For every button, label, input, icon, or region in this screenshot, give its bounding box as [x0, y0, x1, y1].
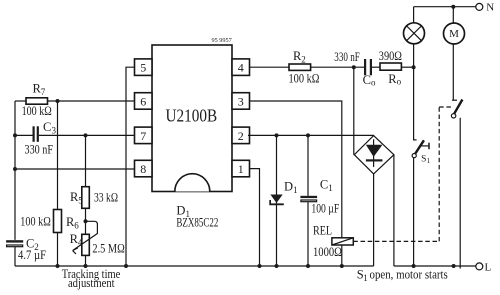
wire pin4 to R2: [250, 66, 290, 68]
terminal L: [476, 261, 492, 273]
svg-text:100 kΩ: 100 kΩ: [20, 215, 51, 229]
node left rail pin8: [13, 167, 17, 171]
wire pin3 to relay: [250, 101, 342, 238]
wire relay contact to bottom rail: [459, 118, 461, 269]
resistor R5: [70, 187, 118, 209]
svg-text:330 nF: 330 nF: [334, 50, 360, 64]
zener diode D1: [269, 179, 297, 205]
wire top N rail: [414, 6, 476, 8]
wire Ro to lamp node: [401, 66, 413, 68]
svg-text:C: C: [43, 120, 51, 134]
node rail S1: [412, 264, 416, 268]
capacitor Co: [334, 50, 376, 88]
node Co junction: [352, 65, 356, 69]
pin 5: [135, 59, 153, 76]
wire bottom rail right to L: [394, 265, 476, 267]
wire pin2 rail to bridge top: [248, 134, 374, 136]
svg-text:4.7 µF: 4.7 µF: [18, 248, 46, 262]
node rail R4: [84, 264, 88, 268]
capacitor C3: [25, 120, 57, 157]
svg-text:adjustment: adjustment: [68, 276, 115, 290]
node rail pin1 line: [258, 264, 262, 268]
wire S1 to bottom rail: [413, 158, 415, 266]
node left rail / C3: [13, 133, 17, 137]
svg-text:BZX85C22: BZX85C22: [176, 216, 218, 230]
pin 8: [135, 160, 153, 177]
svg-text:1: 1: [363, 273, 368, 283]
svg-text:8: 8: [140, 162, 146, 176]
node rail R6: [56, 264, 60, 268]
wire REL bottom: [341, 245, 343, 266]
resistor R6: [20, 210, 79, 233]
node rail D1: [275, 264, 279, 268]
wire left rail vertical: [14, 101, 16, 266]
resistor R7: [22, 82, 52, 118]
pin 4: [232, 59, 250, 76]
wire lamp bottom to Ro node: [413, 44, 415, 67]
svg-text:3: 3: [238, 95, 244, 109]
svg-text:D: D: [284, 179, 293, 193]
svg-text:95 9957: 95 9957: [212, 38, 232, 44]
svg-text:REL: REL: [313, 223, 332, 237]
node lamp/S1 junction: [412, 65, 416, 69]
wire R2 to Co: [311, 66, 364, 68]
node rail C1: [306, 264, 310, 268]
svg-text:S: S: [421, 154, 426, 164]
wire C1 top: [307, 135, 309, 195]
wire R7 left link: [15, 100, 26, 102]
svg-text:1: 1: [427, 157, 431, 165]
resistor R2: [289, 49, 320, 86]
wire R6 bottom: [57, 233, 59, 266]
wire Co to Ro: [372, 66, 380, 68]
wire C3 to pin7: [39, 134, 135, 136]
potentiometer R4: [70, 221, 125, 255]
wire R4 bottom: [85, 255, 87, 266]
relay coil REL: [313, 223, 353, 258]
pin 1: [232, 160, 250, 177]
wire pin8 rail: [15, 168, 135, 170]
switch S1: [412, 140, 431, 165]
node R7/R6 junction: [56, 99, 60, 103]
pin 2: [232, 127, 250, 144]
svg-text:390Ω: 390Ω: [379, 49, 402, 63]
svg-text:100 kΩ: 100 kΩ: [289, 72, 320, 86]
node C1 top: [306, 133, 310, 137]
wire C3 left: [15, 134, 33, 136]
svg-text:1: 1: [293, 185, 298, 195]
svg-text:1000Ω: 1000Ω: [313, 245, 342, 259]
IC type label D1 BZX85C22: [176, 204, 218, 230]
pin 6: [135, 93, 153, 110]
svg-text:1: 1: [328, 183, 333, 193]
node junction on N rail: [451, 5, 455, 9]
svg-text:33 kΩ: 33 kΩ: [94, 190, 118, 204]
svg-text:7: 7: [41, 87, 46, 97]
wire R7 to pin6: [48, 100, 135, 102]
svg-text:2: 2: [301, 55, 306, 65]
node rail pin5 line: [124, 264, 128, 268]
svg-text:4: 4: [238, 61, 244, 75]
svg-text:U2100B: U2100B: [165, 105, 217, 125]
wire motor top stub: [452, 7, 454, 23]
node rail REL: [340, 264, 344, 268]
wire bottom rail left: [15, 265, 374, 267]
relay contact (motor switch): [451, 100, 462, 119]
svg-text:open, motor starts: open, motor starts: [370, 268, 448, 282]
svg-text:5: 5: [140, 61, 146, 75]
wire R6 top: [57, 101, 59, 209]
node R5/R4 wiper junction: [84, 219, 88, 223]
wire Co node down to bridge left corner: [353, 67, 355, 155]
svg-text:330 nF: 330 nF: [25, 143, 54, 157]
svg-text:2: 2: [238, 129, 244, 143]
wire bridge bottom corner down: [373, 174, 375, 266]
wire motor bottom to relay contact: [452, 44, 454, 100]
svg-text:1: 1: [238, 162, 244, 176]
wire pin1 down: [250, 169, 260, 266]
capacitor C2: [6, 236, 46, 261]
wire node to S1: [413, 67, 415, 140]
wire R5 to R4: [85, 208, 87, 234]
wire bridge right corner down: [393, 155, 395, 266]
wire lamp top stub: [413, 7, 415, 23]
svg-text:N: N: [486, 2, 494, 14]
svg-text:4: 4: [78, 237, 83, 247]
node D1 top: [275, 133, 279, 137]
node C3/R5 junction: [84, 133, 88, 137]
svg-text:5: 5: [78, 195, 83, 205]
terminal N: [476, 2, 495, 14]
svg-text:100 µF: 100 µF: [311, 201, 339, 215]
capacitor C1: [300, 177, 339, 215]
svg-text:7: 7: [140, 129, 146, 143]
svg-text:6: 6: [74, 221, 79, 231]
svg-text:2.5 MΩ: 2.5 MΩ: [92, 242, 124, 256]
svg-text:o: o: [397, 76, 402, 86]
resistor Ro: [379, 49, 402, 87]
svg-text:6: 6: [140, 95, 146, 109]
motor M: [444, 23, 465, 44]
wire pin5 to left column: [126, 67, 135, 266]
svg-text:L: L: [485, 261, 492, 273]
bridge rectifier with LED: [354, 136, 394, 174]
svg-text:M: M: [449, 28, 459, 40]
wire R5 top: [85, 135, 87, 186]
svg-text:C: C: [320, 177, 328, 191]
svg-text:100 kΩ: 100 kΩ: [22, 104, 52, 118]
caption tracking time adjustment: [62, 267, 121, 290]
dashed mechanical link relay to contact: [353, 107, 451, 241]
node rail contact: [452, 264, 456, 268]
svg-text:o: o: [371, 77, 376, 87]
pin 7: [135, 127, 153, 144]
caption S1 open motor starts: [357, 268, 448, 283]
lamp La: [404, 23, 425, 44]
wire C1 bottom: [307, 202, 309, 266]
svg-text:C: C: [363, 73, 371, 87]
wire D1 vertical: [276, 135, 278, 266]
op-amp IC U2100B body: [152, 38, 232, 192]
pin 3: [232, 93, 250, 110]
svg-text:3: 3: [52, 125, 57, 135]
